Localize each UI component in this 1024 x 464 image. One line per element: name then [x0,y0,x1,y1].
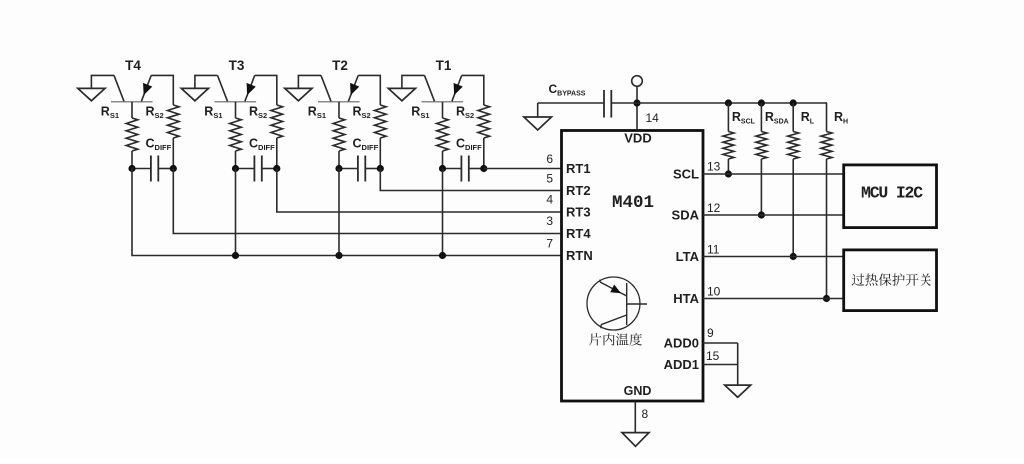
junction dot RL bottom [790,253,797,260]
svg-text:T4: T4 [125,58,141,73]
box overheat protection switch [844,250,937,311]
svg-text:RT3: RT3 [566,205,591,220]
wire VDD rail to pull-ups [637,102,827,104]
resistor RS1 (T3) [230,118,242,151]
junction dot T4 base node [128,165,135,172]
svg-text:VDD: VDD [624,131,651,146]
svg-text:M401: M401 [612,193,654,213]
label 片内温度 (on-chip temperature) [589,333,601,345]
wire SDA net [703,214,844,216]
svg-text:SDA: SDA [672,208,700,223]
wire RTN net [132,169,562,256]
op-amp/IC U1 M401 body [562,131,704,402]
label 过热保护开关 (overheat protection switch) [852,274,865,286]
wire T3 base down [235,102,237,118]
junction dot T2 base node [335,165,342,172]
transistor T2 [318,101,360,103]
wire RS1 bottom (T3) [235,151,237,169]
svg-text:MCU I2C: MCU I2C [861,184,923,203]
ground (CBYPASS) [537,103,539,118]
wire T3 base to RTN [235,169,237,256]
wire RS1 bottom (T4) [131,151,133,169]
junction dot T3 collector node [273,165,280,172]
on-chip temperature sensor transistor Q (circle) [587,277,640,330]
junction dot T1 collector node [480,165,487,172]
svg-text:RT4: RT4 [566,226,591,241]
capacitor CDIFF (T4) [132,168,151,170]
svg-text:HTA: HTA [673,291,699,306]
svg-text:3: 3 [546,214,553,228]
svg-text:13: 13 [707,160,721,174]
junction dot RSCL bottom [725,170,732,177]
svg-text:T1: T1 [436,58,452,73]
junction dot RSDA top [758,99,765,106]
wire RT1 net [484,168,562,170]
transistor T4 [111,101,153,103]
svg-text:15: 15 [706,349,720,363]
junction dot RL top [790,99,797,106]
svg-text:5: 5 [546,172,553,186]
wire ADD0 pin 9 [703,342,738,344]
wire T2 base down [338,102,340,118]
wire T4 emitter to arrow [91,75,114,89]
wire RS1 bottom (T2) [338,151,340,169]
junction dot T2/RTN [335,252,342,259]
wire T4 collector top [151,75,173,105]
junction dot T3 base node [232,165,239,172]
junction dot T3/RTN [232,252,239,259]
svg-text:RT2: RT2 [566,183,591,198]
svg-text:T2: T2 [332,58,348,73]
wire T1 base to RTN [442,169,444,256]
svg-text:T3: T3 [229,58,245,73]
wire LTA net [703,256,844,258]
VDD terminal circle [632,76,643,87]
wire VDD pin 14 [636,103,638,131]
wire T3 emitter to arrow [195,75,218,89]
svg-text:6: 6 [546,152,553,166]
svg-text:14: 14 [646,111,660,125]
transistor T1 [422,101,464,103]
svg-text:11: 11 [707,243,720,257]
box MCU I2C [844,165,937,228]
wire RS2 bottom (T4) [172,138,174,169]
wire ADD to ground [737,343,739,386]
wire RT3 net [277,169,562,213]
wire T3 collector top [255,75,277,105]
wire HTA net [703,298,844,300]
junction dot RSCL top [725,99,732,106]
wire RT2 net [380,169,561,191]
transistor T3 [215,101,257,103]
capacitor CBYPASS [538,102,604,104]
wire RS1 bottom (T1) [442,151,444,169]
wire RS2 bottom (T2) [379,138,381,169]
svg-text:8: 8 [642,407,649,421]
svg-text:10: 10 [707,285,721,299]
wire T4 base down [131,102,133,118]
resistor RS2 (T4) [168,105,180,138]
resistor RH [826,103,829,132]
svg-text:RTN: RTN [566,248,593,263]
wire T2 collector top [358,75,380,105]
capacitor CDIFF (T1) [443,168,462,170]
wire T1 collector top [462,75,484,105]
wire T1 base down [442,102,444,118]
wire RS2 bottom (T3) [276,138,278,169]
svg-text:SCL: SCL [673,167,699,182]
ground arrow T4 [78,88,105,100]
svg-text:RT1: RT1 [566,161,591,176]
wire RS2 bottom (T1) [483,138,485,169]
wire T1 emitter to arrow [402,75,425,89]
capacitor CDIFF (T2) [339,168,358,170]
resistor RS2 (T3) [271,105,283,138]
ground (ADD pins) [725,385,751,397]
svg-text:LTA: LTA [676,249,700,264]
junction dot T2 collector node [377,165,384,172]
svg-text:GND: GND [624,384,652,398]
junction dot RSDA bottom [758,211,765,218]
ground arrow T3 [181,88,208,100]
svg-text:4: 4 [546,193,553,207]
resistor RS1 (T2) [333,118,345,151]
resistor RS1 (T1) [437,118,449,151]
junction dot T1/RTN [439,252,446,259]
resistor RS2 (T1) [478,105,490,138]
resistor RS1 (T4) [126,118,138,151]
junction dot RH bottom [823,295,830,302]
wire T2 base to RTN [338,169,340,256]
junction dot VDD node [633,99,640,106]
ground arrow T1 [388,88,415,100]
wire GND pin 8 [634,402,636,434]
junction dot T4 collector node [170,165,177,172]
ground (GND pin) [622,433,649,447]
wire RT4 net [173,169,561,234]
wire SCL net [703,173,844,175]
capacitor CDIFF (T3) [236,168,255,170]
ground arrow T2 [285,88,312,100]
svg-text:ADD0: ADD0 [664,336,699,351]
svg-text:12: 12 [707,201,721,215]
resistor RS2 (T2) [375,105,387,138]
wire ADD1 pin 15 [703,364,738,366]
svg-text:9: 9 [707,326,714,340]
svg-text:7: 7 [546,237,553,251]
junction dot T1 base node [439,165,446,172]
svg-text:ADD1: ADD1 [664,357,699,372]
wire T2 emitter to arrow [298,75,321,89]
